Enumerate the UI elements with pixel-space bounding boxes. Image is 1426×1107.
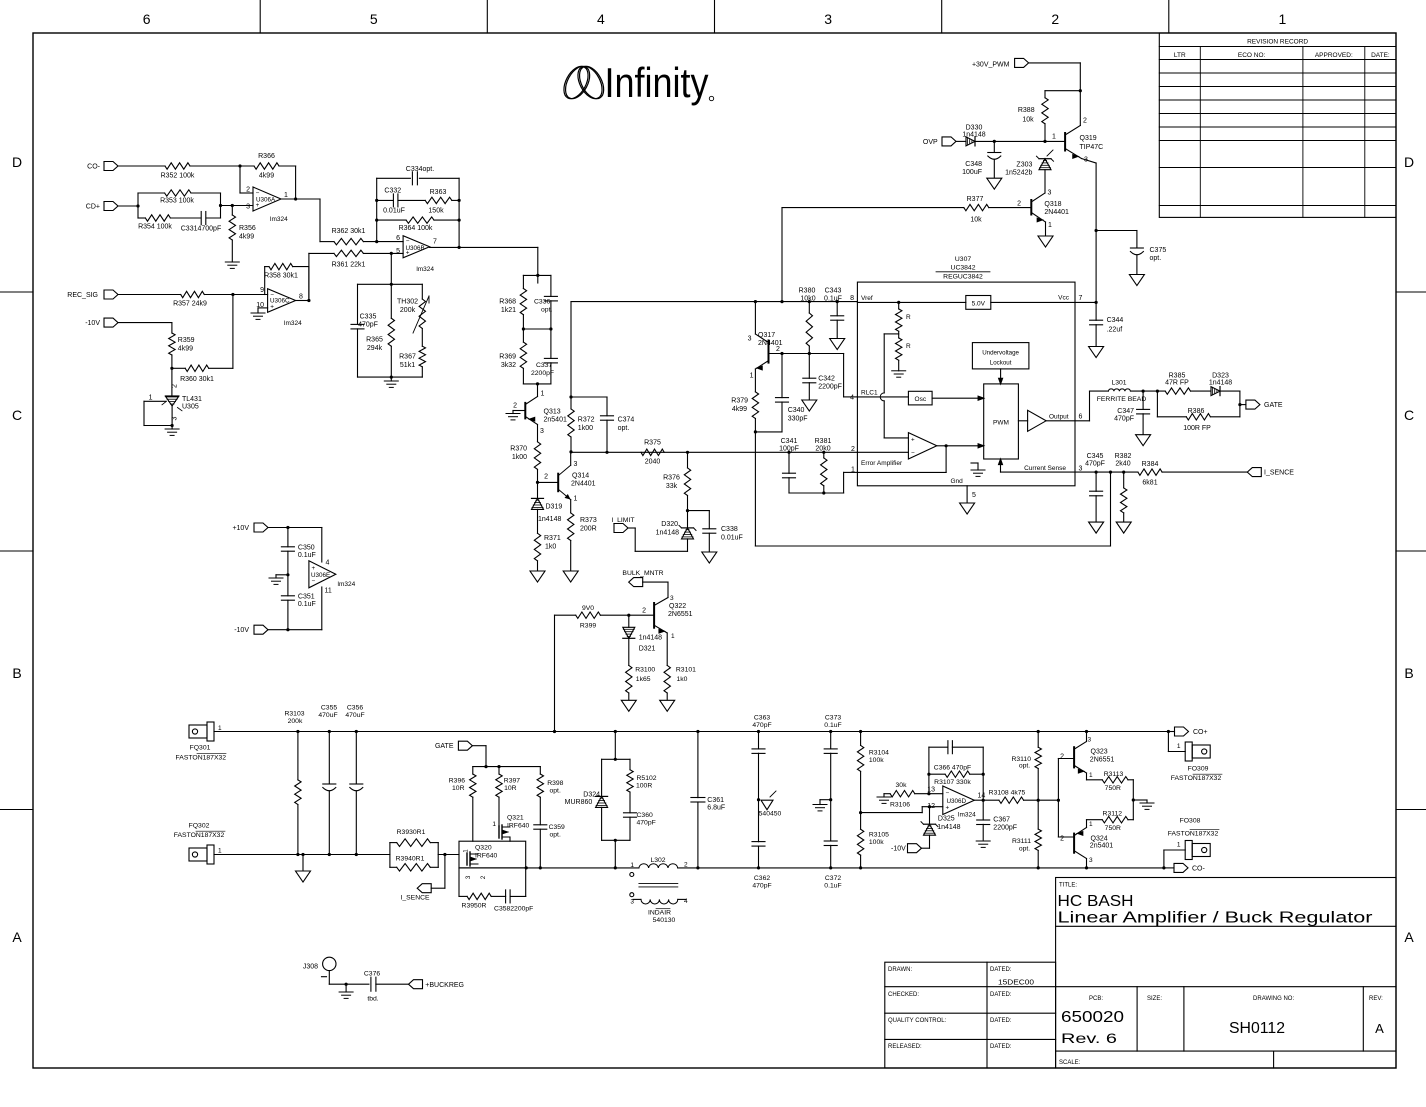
svg-text:47R FP: 47R FP (1165, 380, 1189, 387)
svg-text:C345: C345 (1087, 453, 1104, 460)
svg-text:10k0: 10k0 (800, 295, 815, 302)
svg-text:6: 6 (1079, 414, 1083, 421)
svg-text:BULK_MNTR: BULK_MNTR (622, 570, 663, 577)
svg-text:CO-: CO- (1192, 865, 1206, 872)
svg-text:RELEASED:: RELEASED: (888, 1044, 922, 1050)
svg-text:C336: C336 (534, 299, 550, 306)
svg-text:3: 3 (1088, 737, 1092, 744)
svg-text:R: R (906, 343, 911, 350)
svg-text:10k: 10k (1022, 117, 1034, 124)
svg-text:5: 5 (972, 492, 976, 499)
svg-text:C347: C347 (1117, 408, 1134, 415)
svg-text:3: 3 (246, 204, 250, 211)
svg-text:R3100: R3100 (635, 667, 655, 674)
svg-text:0.1uF: 0.1uF (824, 883, 841, 890)
svg-text:REC_SIG: REC_SIG (67, 292, 98, 299)
svg-text:FQ301: FQ301 (190, 745, 211, 752)
svg-text:C356: C356 (347, 705, 363, 712)
svg-text:8: 8 (299, 294, 303, 301)
svg-text:−: − (945, 790, 949, 797)
svg-text:REV:: REV: (1369, 996, 1383, 1002)
svg-text:R3950R: R3950R (462, 903, 487, 910)
svg-text:2N4401: 2N4401 (758, 340, 783, 347)
svg-text:C3582200pF: C3582200pF (494, 906, 533, 913)
svg-text:14: 14 (978, 792, 986, 799)
svg-text:1n4148: 1n4148 (962, 132, 985, 139)
svg-text:1k0: 1k0 (677, 676, 688, 683)
svg-text:2: 2 (481, 875, 487, 879)
svg-text:MUR860: MUR860 (565, 799, 593, 806)
svg-text:R354 100k: R354 100k (138, 224, 172, 231)
svg-text:R3111: R3111 (1012, 838, 1031, 845)
svg-text:7: 7 (433, 239, 437, 246)
svg-text:R372: R372 (578, 417, 595, 424)
svg-text:R3940R1: R3940R1 (396, 856, 425, 863)
svg-text:U306E: U306E (311, 572, 330, 579)
svg-text:470pF: 470pF (1085, 461, 1105, 468)
svg-text:R396: R396 (449, 778, 465, 785)
svg-text:750R: 750R (1105, 825, 1121, 832)
svg-text:1: 1 (1048, 222, 1052, 229)
svg-text:R379: R379 (731, 398, 748, 405)
svg-text:1: 1 (218, 848, 222, 855)
svg-text:330pF: 330pF (788, 416, 808, 423)
svg-text:1k00: 1k00 (578, 425, 593, 432)
svg-text:1: 1 (1052, 134, 1056, 141)
svg-text:FO308: FO308 (1180, 818, 1201, 825)
svg-text:5: 5 (396, 248, 400, 255)
svg-text:R369: R369 (499, 354, 516, 361)
svg-text:UC3842: UC3842 (951, 265, 976, 272)
svg-text:C373: C373 (825, 715, 841, 722)
svg-text:150k: 150k (428, 208, 444, 215)
svg-text:R370: R370 (510, 446, 527, 453)
svg-text:R356: R356 (239, 225, 256, 232)
svg-text:R361 22k1: R361 22k1 (332, 262, 366, 269)
svg-text:0.1uF: 0.1uF (824, 722, 841, 729)
svg-text:C375: C375 (1150, 247, 1167, 254)
svg-text:2n5401: 2n5401 (544, 417, 567, 424)
svg-text:C361: C361 (707, 797, 724, 804)
svg-text:C: C (12, 407, 22, 423)
svg-text:C343: C343 (825, 288, 842, 295)
svg-text:10R: 10R (504, 785, 517, 792)
svg-text:A: A (1375, 1021, 1384, 1036)
svg-text:R367: R367 (399, 354, 416, 361)
svg-text:OVP: OVP (923, 139, 938, 146)
svg-text:4: 4 (850, 395, 854, 402)
svg-text:R3113: R3113 (1104, 771, 1124, 778)
svg-text:2N4401: 2N4401 (1044, 209, 1069, 216)
svg-text:R5102: R5102 (637, 775, 657, 782)
svg-text:GATE: GATE (1264, 402, 1283, 409)
svg-text:4k99: 4k99 (239, 234, 254, 241)
svg-text:DATED:: DATED: (990, 992, 1012, 998)
svg-text:C362: C362 (754, 875, 770, 882)
svg-text:DRAWING NO:: DRAWING NO: (1253, 996, 1294, 1002)
svg-text:100uF: 100uF (962, 169, 982, 176)
svg-text:Gnd: Gnd (951, 478, 964, 485)
svg-text:PCB:: PCB: (1089, 996, 1103, 1002)
svg-text:R381: R381 (815, 438, 832, 445)
svg-text:U306D: U306D (947, 798, 967, 805)
svg-text:INDAIR: INDAIR (648, 910, 671, 917)
svg-text:8: 8 (850, 295, 854, 302)
svg-text:10: 10 (256, 302, 264, 309)
svg-text:1k00: 1k00 (512, 454, 527, 461)
svg-text:1n4148: 1n4148 (538, 516, 561, 523)
svg-text:FASTON187X32: FASTON187X32 (1168, 831, 1219, 838)
svg-text:R3107 330k: R3107 330k (934, 779, 971, 786)
svg-text:R368: R368 (499, 299, 516, 306)
svg-text:650020: 650020 (1061, 1009, 1124, 1026)
svg-text:DATE:: DATE: (1371, 52, 1390, 59)
svg-text:0.1uF: 0.1uF (824, 295, 842, 302)
svg-text:U307: U307 (955, 256, 971, 263)
svg-text:REGUC3842: REGUC3842 (943, 274, 983, 281)
svg-text:3: 3 (748, 336, 752, 343)
svg-text:REVISION RECORD: REVISION RECORD (1247, 39, 1308, 46)
svg-text:1n4148: 1n4148 (1209, 380, 1232, 387)
svg-text:FERRITE BEAD: FERRITE BEAD (1097, 396, 1147, 403)
svg-text:15DEC00: 15DEC00 (998, 978, 1034, 987)
svg-text:C367: C367 (993, 817, 1010, 824)
svg-text:L302: L302 (650, 857, 665, 864)
svg-text:SCALE:: SCALE: (1059, 1060, 1081, 1066)
svg-text:3k32: 3k32 (501, 362, 516, 369)
svg-text:R375: R375 (644, 440, 661, 447)
svg-text:Q320: Q320 (475, 845, 492, 852)
svg-text:3: 3 (630, 899, 634, 906)
svg-text:Error Amplifier: Error Amplifier (861, 460, 903, 467)
svg-text:C335: C335 (360, 314, 377, 321)
svg-text:6k81: 6k81 (1142, 480, 1157, 487)
svg-text:9: 9 (260, 287, 264, 294)
svg-text:30k: 30k (896, 782, 908, 789)
svg-text:2: 2 (1017, 201, 1021, 208)
svg-text:PWM: PWM (993, 420, 1009, 427)
svg-text:750R: 750R (1105, 785, 1121, 792)
svg-text:6: 6 (143, 11, 151, 27)
svg-text:R386: R386 (1188, 408, 1205, 415)
svg-text:D330: D330 (966, 125, 983, 132)
svg-text:CHECKED:: CHECKED: (888, 992, 919, 998)
svg-text:D324: D324 (583, 792, 600, 799)
svg-text:2k40: 2k40 (1115, 461, 1130, 468)
svg-text:Rev. 6: Rev. 6 (1061, 1030, 1117, 1046)
svg-text:2: 2 (684, 861, 688, 868)
svg-text:R388: R388 (1018, 107, 1035, 114)
svg-text:2: 2 (642, 608, 646, 615)
svg-text:U306C: U306C (270, 298, 290, 305)
svg-text:1n5242b: 1n5242b (1005, 170, 1032, 177)
svg-text:TIP47C: TIP47C (1080, 144, 1104, 151)
svg-text:1: 1 (464, 849, 470, 853)
svg-text:2: 2 (172, 384, 179, 388)
svg-text:GATE: GATE (435, 743, 454, 750)
svg-text:-10V: -10V (891, 846, 906, 853)
svg-text:Output: Output (1049, 413, 1069, 420)
svg-text:R384: R384 (1142, 461, 1159, 468)
svg-text:Current Sense: Current Sense (1024, 465, 1066, 472)
svg-text:1: 1 (492, 821, 496, 828)
svg-text:1: 1 (1089, 772, 1093, 779)
svg-text:C350: C350 (298, 545, 315, 552)
svg-text:100pF: 100pF (779, 446, 799, 453)
svg-text:lm324: lm324 (958, 812, 976, 819)
svg-text:2: 2 (1083, 118, 1087, 125)
svg-text:2: 2 (776, 346, 780, 353)
svg-text:opt.: opt. (541, 307, 552, 314)
svg-text:C376: C376 (364, 971, 380, 978)
svg-text:1k21: 1k21 (501, 307, 516, 314)
svg-text:6.8uF: 6.8uF (707, 805, 725, 812)
svg-text:FO309: FO309 (1188, 766, 1209, 773)
svg-text:R363: R363 (430, 189, 447, 196)
svg-text:470uF: 470uF (318, 712, 337, 719)
svg-text:3: 3 (1084, 157, 1088, 164)
svg-text:C341: C341 (781, 438, 798, 445)
svg-text:R3108 4k75: R3108 4k75 (989, 790, 1026, 797)
svg-text:D320: D320 (661, 521, 678, 528)
svg-text:R380: R380 (799, 288, 816, 295)
svg-text:CO-: CO- (87, 164, 101, 171)
svg-text:opt.: opt. (618, 425, 630, 432)
svg-text:R3106: R3106 (890, 801, 910, 808)
svg-text:QUALITY CONTROL:: QUALITY CONTROL: (888, 1018, 947, 1024)
svg-text:SIZE:: SIZE: (1147, 996, 1162, 1002)
svg-text:D: D (1404, 154, 1414, 170)
svg-text:3: 3 (540, 428, 544, 435)
svg-text:+: + (312, 565, 316, 572)
svg-text:2n5401: 2n5401 (1090, 843, 1113, 850)
svg-text:R398: R398 (547, 780, 563, 787)
svg-text:R3104: R3104 (869, 750, 889, 757)
svg-text:+10V: +10V (232, 525, 249, 532)
svg-text:Infinity: Infinity (605, 59, 709, 106)
svg-text:Q319: Q319 (1080, 135, 1097, 142)
svg-text:20k0: 20k0 (815, 446, 830, 453)
svg-text:3: 3 (1089, 857, 1093, 864)
svg-text:5.0V: 5.0V (972, 300, 986, 307)
svg-text:100k: 100k (869, 757, 884, 764)
svg-text:6: 6 (396, 235, 400, 242)
svg-text:lm324: lm324 (416, 266, 434, 273)
svg-text:3: 3 (824, 11, 832, 27)
svg-text:Q323: Q323 (1091, 748, 1108, 755)
svg-text:RLC1: RLC1 (861, 390, 878, 397)
svg-text:R364 100k: R364 100k (399, 225, 433, 232)
svg-text:C360: C360 (637, 812, 653, 819)
svg-text:lm324: lm324 (270, 216, 288, 223)
svg-text:SH0112: SH0112 (1229, 1020, 1285, 1037)
svg-text:C: C (1404, 407, 1414, 423)
svg-text:2: 2 (851, 446, 855, 453)
svg-text:R360 30k1: R360 30k1 (180, 376, 214, 383)
svg-text:opt.: opt. (1019, 763, 1030, 770)
svg-text:4k99: 4k99 (732, 406, 747, 413)
svg-text:540130: 540130 (653, 917, 676, 924)
svg-text:7: 7 (1079, 295, 1083, 302)
svg-text:470pF: 470pF (1114, 416, 1134, 423)
svg-text:Q324: Q324 (1091, 835, 1108, 842)
svg-text:C359: C359 (549, 824, 565, 831)
svg-text:ECO NO:: ECO NO: (1238, 52, 1266, 59)
svg-text:2: 2 (544, 474, 548, 481)
svg-text:R397: R397 (504, 778, 520, 785)
svg-text:1: 1 (851, 467, 855, 474)
svg-text:10R: 10R (452, 785, 465, 792)
svg-text:1: 1 (284, 192, 288, 199)
svg-text:+: + (911, 436, 915, 443)
svg-text:2N6551: 2N6551 (1090, 757, 1115, 764)
svg-text:C363: C363 (754, 715, 770, 722)
svg-text:100R FP: 100R FP (1183, 425, 1211, 432)
svg-text:11: 11 (325, 588, 332, 595)
svg-text:D325: D325 (938, 816, 955, 823)
svg-text:1: 1 (149, 395, 153, 402)
svg-text:DRAWN:: DRAWN: (888, 967, 912, 973)
svg-text:R373: R373 (580, 517, 597, 524)
svg-text:L301: L301 (1111, 380, 1126, 387)
svg-text:lm324: lm324 (284, 320, 302, 327)
svg-text:C340: C340 (788, 407, 805, 414)
svg-text:I_SENCE: I_SENCE (400, 895, 430, 902)
svg-text:10k: 10k (970, 217, 982, 224)
svg-text:IRF640: IRF640 (507, 823, 530, 830)
svg-text:1: 1 (574, 496, 578, 503)
svg-text:200R: 200R (580, 526, 597, 533)
svg-text:HC BASH: HC BASH (1058, 893, 1134, 910)
svg-text:R3105: R3105 (869, 831, 889, 838)
svg-text:0.01uF: 0.01uF (721, 535, 743, 542)
svg-text:FASTON187X32: FASTON187X32 (176, 755, 227, 762)
svg-text:Z303: Z303 (1016, 162, 1032, 169)
svg-text:B: B (12, 665, 21, 681)
svg-text:3: 3 (670, 595, 674, 602)
svg-text:4k99: 4k99 (178, 346, 193, 353)
svg-text:APPROVED:: APPROVED: (1315, 52, 1353, 59)
svg-text:R382: R382 (1115, 453, 1132, 460)
svg-text:D321: D321 (639, 646, 656, 653)
svg-text:C344: C344 (1107, 317, 1124, 324)
svg-text:294k: 294k (367, 345, 383, 352)
svg-text:U306B: U306B (406, 245, 425, 252)
svg-text:R357 24k9: R357 24k9 (173, 301, 207, 308)
svg-text:2N4401: 2N4401 (571, 481, 596, 488)
svg-text:C337: C337 (536, 362, 552, 369)
svg-text:4k99: 4k99 (259, 173, 274, 180)
svg-text:lm324: lm324 (338, 581, 356, 588)
svg-text:1: 1 (541, 391, 545, 398)
svg-text:2: 2 (246, 187, 250, 194)
svg-text:Q318: Q318 (1044, 201, 1061, 208)
svg-text:A: A (12, 929, 22, 945)
svg-text:C351: C351 (298, 594, 315, 601)
svg-text:4: 4 (597, 11, 605, 27)
svg-text:R352 100k: R352 100k (161, 173, 195, 180)
svg-text:3: 3 (172, 417, 179, 421)
svg-text:C342: C342 (818, 376, 835, 383)
svg-text:R3103: R3103 (284, 711, 304, 718)
svg-text:9V0: 9V0 (582, 605, 594, 612)
svg-text:Lockout: Lockout (990, 360, 1012, 367)
svg-text:TH302: TH302 (397, 299, 418, 306)
svg-text:R: R (906, 314, 911, 321)
svg-text:1: 1 (1089, 821, 1093, 828)
svg-text:R366: R366 (258, 153, 275, 160)
svg-text:33k: 33k (666, 483, 678, 490)
svg-text:2200pF: 2200pF (993, 824, 1017, 831)
svg-text:2200pF: 2200pF (818, 384, 842, 391)
svg-text:D: D (12, 154, 22, 170)
svg-text:470pF: 470pF (752, 883, 771, 890)
svg-text:I_SENCE: I_SENCE (1264, 470, 1294, 477)
svg-text:0.1uF: 0.1uF (298, 552, 316, 559)
svg-text:3: 3 (1079, 466, 1083, 473)
svg-text:R371: R371 (544, 535, 561, 542)
svg-text:−: − (312, 578, 316, 585)
svg-text:opt.: opt. (550, 787, 561, 794)
svg-text:U306A: U306A (256, 197, 276, 204)
svg-text:0.01uF: 0.01uF (383, 208, 405, 215)
svg-text:4: 4 (326, 560, 330, 567)
svg-text:R3101: R3101 (676, 667, 696, 674)
svg-text:CD+: CD+ (86, 204, 100, 211)
svg-text:1k0: 1k0 (545, 544, 556, 551)
svg-text:470pF: 470pF (358, 322, 378, 329)
svg-text:Linear Amplifier / Buck Regu: Linear Amplifier / Buck Regulator (1058, 910, 1373, 927)
svg-text:2: 2 (1060, 753, 1064, 760)
svg-text:+: + (945, 805, 949, 812)
svg-text:200k: 200k (288, 718, 303, 725)
svg-text:R353 100k: R353 100k (160, 198, 194, 205)
svg-text:4: 4 (684, 898, 688, 905)
svg-text:C334opt.: C334opt. (406, 166, 434, 173)
svg-text:CO+: CO+ (1193, 729, 1208, 736)
svg-text:D323: D323 (1212, 373, 1229, 380)
svg-text:+: + (270, 304, 274, 311)
svg-text:1: 1 (630, 862, 634, 869)
svg-text:100R: 100R (636, 783, 652, 790)
svg-text:C348: C348 (965, 161, 982, 168)
svg-text:R385: R385 (1169, 373, 1186, 380)
svg-text:2: 2 (1060, 835, 1064, 842)
svg-text:C332: C332 (384, 188, 401, 195)
svg-text:Q321: Q321 (507, 815, 524, 822)
svg-text:R376: R376 (663, 475, 680, 482)
svg-text:2040: 2040 (645, 459, 661, 466)
svg-text:R3112: R3112 (1103, 811, 1123, 818)
svg-text:2: 2 (513, 403, 517, 410)
svg-text:U305: U305 (182, 404, 199, 411)
svg-text:200k: 200k (400, 307, 416, 314)
svg-text:.22uf: .22uf (1107, 327, 1123, 334)
svg-text:R3930R1: R3930R1 (397, 829, 426, 836)
svg-text:FASTON187X32: FASTON187X32 (174, 832, 225, 839)
svg-text:1: 1 (1177, 743, 1181, 750)
svg-text:I_LIMIT: I_LIMIT (611, 517, 634, 524)
svg-text:Vref: Vref (861, 295, 873, 302)
svg-text:A: A (1404, 929, 1414, 945)
svg-text:B: B (1404, 665, 1413, 681)
svg-text:540450: 540450 (759, 811, 782, 818)
svg-text:R365: R365 (366, 337, 383, 344)
svg-text:3: 3 (1048, 190, 1052, 197)
svg-text:opt.: opt. (1150, 255, 1162, 262)
svg-text:51k1: 51k1 (400, 362, 415, 369)
svg-text:Vcc: Vcc (1058, 295, 1070, 302)
